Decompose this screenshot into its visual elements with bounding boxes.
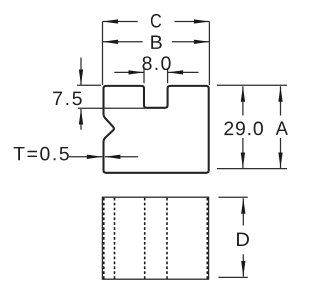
dimension line D [242, 198, 244, 276]
extension line D top [218, 196, 247, 198]
dashed line inner left wall [103, 198, 105, 279]
label D [237, 233, 249, 246]
dimension line 8.0 [114, 71, 198, 73]
extension line A/29 top [217, 84, 287, 86]
arrow 7.5 down [79, 70, 83, 86]
label T=0.5 [14, 147, 69, 161]
arrow 7.5 up [79, 109, 83, 125]
label A [276, 122, 288, 135]
arrow T right [105, 155, 121, 159]
dimension line A [280, 86, 282, 168]
hidden dashed lines [104, 198, 208, 279]
extension line 7.5 bottom [78, 107, 145, 109]
arrow 29.0 up [241, 86, 245, 102]
dimension line B [103, 41, 210, 43]
dashed line slot left wall [144, 198, 146, 279]
extension line D bottom [218, 276, 247, 278]
extension line right (C/B) [208, 22, 210, 86]
arrow 29.0 down [241, 153, 245, 169]
arrow 8.0 right [168, 70, 184, 74]
dashed line bump vertex [114, 198, 116, 279]
arrowheads upper view [79, 19, 283, 168]
arrow A down [278, 153, 282, 169]
label 7.5 [53, 92, 81, 106]
arrow T left [87, 155, 103, 159]
extension line A/29 bottom [217, 168, 287, 170]
arrow D down [241, 261, 245, 277]
label C [151, 14, 161, 28]
arrow A up [278, 86, 282, 102]
dimension line 7.5 [80, 58, 82, 130]
arrow C right [194, 19, 210, 23]
bottom view rectangle [102, 197, 208, 279]
dimension linework [69, 22, 287, 169]
T=0.5 leader left [69, 156, 102, 158]
arrow B left [103, 40, 119, 44]
dashed line inner right wall [206, 198, 208, 279]
D dimension [218, 197, 247, 277]
labels upper view [14, 14, 288, 161]
arrow D up [241, 198, 245, 214]
extension line 7.5 top [77, 84, 101, 86]
extension stubs 8.0 [144, 68, 168, 83]
arrow C left [103, 19, 119, 23]
T=0.5 leader right [105, 156, 138, 158]
part outline [104, 86, 209, 173]
arrow B right [194, 40, 210, 44]
label B [151, 36, 162, 49]
label 29.0 [224, 122, 263, 136]
dashed line slot right wall [166, 198, 168, 279]
dimension line C [103, 21, 210, 23]
dimension line 29.0 [242, 86, 244, 168]
extension line left (C/B) [102, 22, 104, 86]
arrow 8.0 left [129, 70, 145, 74]
label 8.0 [143, 56, 171, 70]
